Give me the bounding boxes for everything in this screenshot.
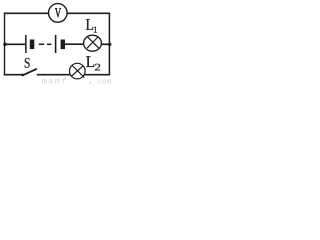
wire middle battery branch bbox=[5, 43, 109, 45]
battery cell 2 short thick plate bbox=[61, 40, 65, 50]
wire bottom from switch to right corner bbox=[37, 74, 110, 76]
junction node left bbox=[3, 43, 7, 47]
label S bbox=[25, 58, 30, 68]
watermark manfen5.com fragment "manf" bbox=[42, 78, 66, 83]
label L2 bbox=[86, 56, 100, 70]
wire right bbox=[108, 13, 110, 76]
battery cell 2 long plate bbox=[55, 35, 57, 53]
label L1 bbox=[86, 19, 97, 32]
voltmeter V bbox=[49, 4, 68, 23]
battery cell 1 short thick plate bbox=[30, 40, 35, 50]
battery cell 1 long plate bbox=[25, 35, 27, 53]
dashed wire between battery cells bbox=[39, 43, 52, 45]
lamp L2 bbox=[70, 63, 86, 79]
junction node right bbox=[108, 43, 111, 46]
wire top bbox=[4, 12, 109, 14]
wire bottom left to switch bbox=[4, 74, 23, 76]
watermark fragment ". com" bbox=[90, 79, 112, 83]
switch S bbox=[21, 69, 37, 76]
wire left bbox=[4, 13, 6, 76]
lamp L1 bbox=[84, 35, 102, 51]
